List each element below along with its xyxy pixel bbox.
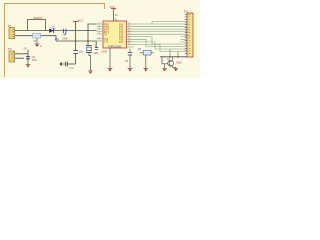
svg-text:10u: 10u [79,50,84,54]
svg-text:AT89C2051: AT89C2051 [108,44,122,48]
svg-text:G: G [40,45,42,48]
transistor Q1 [162,57,182,69]
power port VCC (x=75.5) [73,18,84,41]
svg-text:XT2: XT2 [104,41,109,43]
svg-text:C3+: C3+ [70,67,75,70]
svg-text:IN4007: IN4007 [33,16,43,20]
crystal Y1 cluster [86,24,98,74]
fuse F1 on lower wire [33,34,41,43]
wire from P2 [15,54,28,58]
wire mid (net C) [56,40,97,42]
capacitor C1 (blue curl) [51,26,67,42]
ground left of Q1 [162,64,166,71]
svg-text:8550: 8550 [177,63,183,65]
svg-text:P2: P2 [8,47,12,51]
svg-text:GND: GND [62,38,68,41]
wire bridge over diode [28,20,46,31]
IC top pin to VCC [110,5,119,21]
svg-text:VCC: VCC [110,5,116,9]
connector JP1 (right header) [184,10,194,57]
svg-text:12M: 12M [94,52,99,55]
connector J1 (power in, top-left) [8,24,15,39]
riser from bus [170,49,178,57]
wire main top (net A) [15,30,97,32]
svg-text:P17: P17 [119,42,124,44]
sheet border frame [5,4,105,78]
IC U1 [103,21,127,48]
VCC label + cap C8 + ground [24,46,38,67]
IC bottom ground pin [102,48,113,72]
junction dot [177,56,179,58]
resistor R1 (blue box) [138,48,154,72]
wire lower (net B) [15,36,56,41]
capacitor C5 under IC right [125,49,132,72]
svg-text:VCC: VCC [78,18,84,22]
capacitor C2 on VCC drop [70,41,84,70]
IC left pins [97,24,104,41]
connector P2 (bottom-left) [8,47,15,62]
diode D1 [49,28,53,33]
svg-text:GND: GND [102,51,108,54]
transistor cluster wire [160,56,187,58]
junction dot [87,40,89,42]
svg-text:P1: P1 [8,24,12,28]
svg-text:470u: 470u [32,59,38,62]
svg-text:5V: 5V [24,46,27,50]
IC right pins [127,24,134,47]
svg-text:C11: C11 [51,26,56,30]
junction dot [169,56,171,58]
polarized capacitor C4 + ground left [59,62,75,67]
svg-text:JP1: JP1 [184,10,189,14]
green bus wires to connector [134,21,188,56]
ground below fuse [35,38,42,48]
ground right of Q1 [174,68,178,71]
junction dot [75,40,77,42]
